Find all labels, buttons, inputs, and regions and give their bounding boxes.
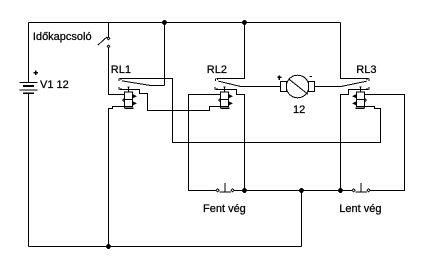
label Lent vég bbox=[339, 204, 381, 215]
relay RL2 contact terminals bbox=[215, 79, 218, 90]
motor M1 bbox=[281, 75, 315, 98]
wire switch drop from top rail bbox=[108, 23, 110, 38]
relay RL1 contact terminals bbox=[119, 79, 121, 90]
wire bottom rail bbox=[29, 246, 302, 248]
battery V1 bbox=[20, 83, 38, 94]
label motor minus sign bbox=[310, 76, 312, 78]
relay RL3 contact blade bbox=[315, 81, 367, 86]
label motor value 12 bbox=[293, 105, 305, 116]
wire top rail bbox=[29, 22, 341, 24]
wire top rail drop to RL2 NC terminal bbox=[217, 23, 245, 79]
label RL3 bbox=[356, 65, 376, 76]
wire RL3 coil right to Lent vég right terminal bbox=[365, 95, 405, 191]
wire motor right bbox=[315, 86, 343, 88]
junction dot bottom rail at RL1 return bbox=[106, 244, 111, 249]
wire RL1 coil bottom to bottom rail bbox=[109, 107, 125, 247]
wire switch to RL1 coil left bbox=[109, 48, 125, 95]
label battery plus sign bbox=[34, 71, 38, 76]
limit switch Fent vég (SW1) bbox=[216, 183, 234, 192]
label Időkapcsoló bbox=[33, 32, 92, 43]
relay RL3 coil U3 bbox=[356, 87, 367, 108]
wire RL2 NO contact down to limit line bbox=[216, 90, 245, 191]
label Fent vég bbox=[203, 204, 246, 215]
wire RL1 NC line to RL3 coil bottom (node A) bbox=[120, 79, 381, 143]
junction dot limit line at RL2 NO drop bbox=[242, 188, 247, 193]
wire left rail lower (battery -) bbox=[28, 94, 30, 247]
junction dot top rail at RL2 drop bbox=[242, 20, 247, 25]
relay RL1 contact blade bbox=[122, 81, 164, 86]
wire RL1 NO contact to RL2 coil bottom bbox=[120, 90, 221, 111]
relay RL1 coil U1 bbox=[123, 87, 134, 108]
label RL2 bbox=[207, 65, 227, 76]
label RL1 bbox=[111, 65, 131, 76]
junction dot limit line at RL3 NO drop bbox=[338, 188, 343, 193]
wire limit line Fent to Lent bbox=[234, 190, 353, 192]
junction dot limit line at bottom riser bbox=[299, 188, 304, 193]
wire top rail drop to RL1 common bbox=[164, 23, 166, 86]
timer switch (Időkapcsoló) bbox=[98, 37, 110, 48]
limit switch Lent vég (SW2) bbox=[352, 183, 370, 192]
wire RL3 NO contact down to limit line bbox=[341, 90, 369, 191]
relay RL3 contact terminals bbox=[367, 79, 369, 90]
wire motor left bbox=[241, 86, 281, 88]
label motor plus sign bbox=[277, 75, 281, 80]
relay RL2 contact blade bbox=[219, 81, 281, 86]
wire bottom riser to limit-switch line bbox=[301, 191, 303, 247]
label V1 12 bbox=[40, 80, 69, 91]
wire RL2 coil left to Fent vég left terminal bbox=[189, 95, 221, 191]
junction dot top rail at RL1 common drop bbox=[162, 20, 167, 25]
relay RL2 coil U2 bbox=[219, 87, 230, 108]
wire left rail upper (battery +) bbox=[28, 23, 30, 83]
wire top rail right end to RL3 NC terminal bbox=[341, 23, 369, 79]
